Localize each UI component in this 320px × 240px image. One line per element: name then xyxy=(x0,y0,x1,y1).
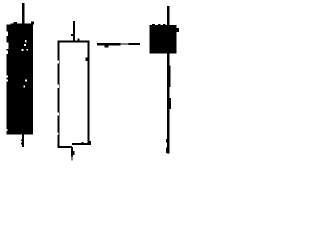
candle 1 (tall black) upper wick xyxy=(22,3,25,24)
doji dash xyxy=(97,43,140,48)
candle 1 body white scan specks xyxy=(7,24,29,131)
candle 1 lower wick xyxy=(21,134,24,147)
candle 2 (tall hollow) body outline xyxy=(58,38,92,148)
candle 2 lower wick xyxy=(71,147,74,161)
candle 2 (tall hollow) upper wick xyxy=(71,21,75,42)
candle 3 body xyxy=(150,24,180,54)
candle 3 (small black, long lower shadow) wick xyxy=(166,6,171,154)
candle 1 (tall black) body xyxy=(7,21,35,134)
candle 2 left border scan gaps xyxy=(58,61,59,135)
